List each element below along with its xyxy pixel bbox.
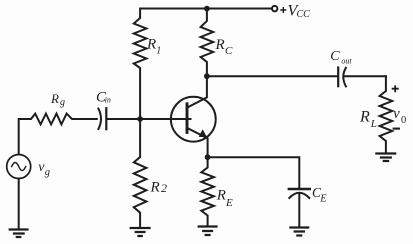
svg-text:R: R: [216, 188, 226, 204]
svg-text:in: in: [105, 96, 111, 105]
svg-text:g: g: [60, 97, 65, 108]
svg-text:R: R: [359, 109, 370, 126]
svg-text:2: 2: [161, 181, 167, 195]
svg-text:C: C: [225, 45, 233, 57]
svg-text:out: out: [341, 56, 352, 65]
svg-text:E: E: [225, 197, 233, 209]
svg-text:E: E: [319, 193, 327, 204]
svg-text:R: R: [215, 37, 225, 53]
svg-text:CC: CC: [297, 9, 311, 20]
svg-text:R: R: [146, 36, 156, 52]
svg-text:R: R: [150, 179, 160, 195]
svg-text:L: L: [370, 118, 377, 130]
svg-text:g: g: [45, 167, 50, 178]
svg-text:0: 0: [401, 115, 406, 126]
svg-text:R: R: [50, 91, 59, 106]
svg-text:v: v: [393, 106, 400, 122]
svg-text:1: 1: [156, 46, 161, 57]
svg-text:C: C: [330, 49, 340, 64]
